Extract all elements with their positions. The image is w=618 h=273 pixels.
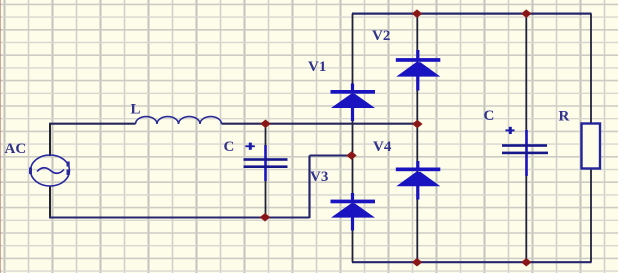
diode V2 [372, 28, 440, 91]
svg-text:C: C [484, 108, 495, 124]
AC source AC [5, 141, 70, 186]
diode V4 [373, 139, 440, 200]
node top of V2 branch [412, 9, 423, 18]
capacitor C1 (input filter) [224, 139, 288, 181]
svg-text:V4: V4 [373, 139, 392, 155]
wire output capacitor branch [525, 14, 527, 263]
capacitor C2 (output filter) [484, 108, 549, 176]
svg-text:V1: V1 [308, 59, 326, 75]
wire load resistor branch [590, 14, 592, 263]
node bottom of C2 branch [521, 258, 532, 267]
node bottom of V2 branch [412, 258, 423, 267]
node V2/V4 midpoint [412, 120, 423, 129]
svg-text:AC: AC [5, 141, 27, 157]
wire input capacitor branch [265, 124, 267, 217]
wire AC bottom lead [49, 186, 51, 218]
svg-text:R: R [559, 109, 570, 125]
wire mid rail left of inductor [49, 123, 136, 125]
wire left bridge branch (V1/V3) [352, 14, 354, 263]
node top of C2 branch [521, 9, 532, 18]
wire riser to bridge node [308, 156, 310, 219]
wire lower-left rail [49, 216, 310, 218]
node C1 top [260, 119, 271, 128]
wire bottom rail [352, 261, 592, 263]
resistor R [559, 109, 601, 169]
node V1/V3 midpoint [346, 151, 357, 160]
node C1 bottom [260, 213, 271, 222]
svg-text:L: L [131, 102, 141, 118]
wire AC top lead [49, 124, 51, 156]
inductor L [131, 102, 222, 125]
wire right bridge branch (V2/V4) [416, 14, 418, 263]
wire mid rail right of inductor [222, 123, 418, 125]
svg-text:V3: V3 [310, 169, 328, 185]
diode V3 [310, 169, 375, 231]
diode V1 [308, 59, 375, 121]
svg-text:V2: V2 [372, 28, 390, 44]
wire top rail [352, 13, 592, 15]
svg-text:C: C [224, 139, 235, 155]
wire link riser to V1/V3 midpoint [310, 155, 352, 157]
